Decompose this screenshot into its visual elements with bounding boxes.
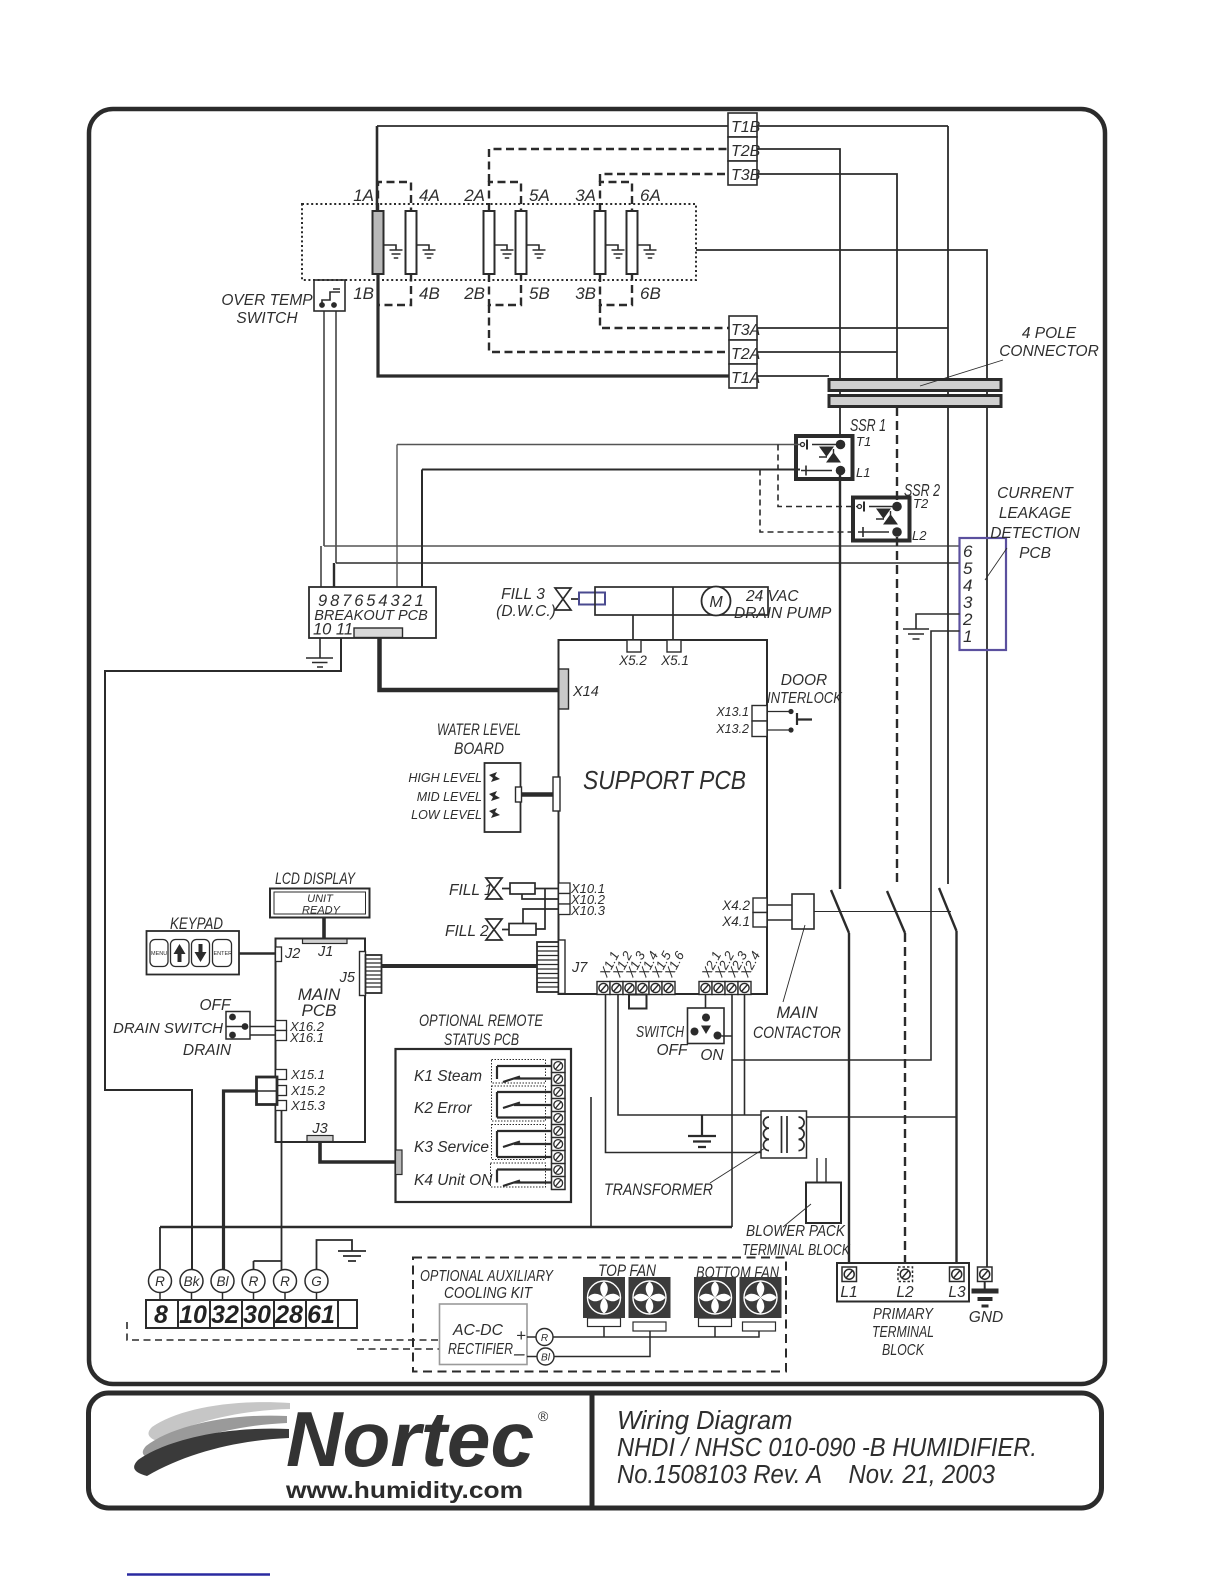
svg-text:28: 28: [274, 1301, 303, 1329]
wire T1B left drop to fuse 1A: [376, 126, 379, 211]
wire T2A right: [757, 351, 897, 353]
fuse 5A: [516, 211, 527, 274]
svg-text:24 VAC: 24 VAC: [745, 588, 799, 605]
wire fuse1B thick to T1A: [378, 274, 729, 376]
svg-text:LEAKAGE: LEAKAGE: [999, 505, 1072, 522]
wire to X5.2: [632, 615, 634, 640]
drain switch: [113, 997, 232, 1059]
svg-text:FILL 2: FILL 2: [445, 923, 489, 940]
status PCB: [396, 1049, 572, 1202]
ground at fuse 3A: [606, 245, 625, 258]
contact 1 blade: [831, 475, 849, 1267]
svg-text:3A: 3A: [575, 186, 596, 205]
primary terminal block: [837, 1263, 969, 1302]
K2 contact: [492, 1086, 546, 1121]
blower pack terminal block: [806, 1183, 841, 1224]
circle to cell stubs: [160, 1293, 317, 1301]
svg-text:X10.3: X10.3: [570, 903, 606, 918]
fill 3 valve: [555, 588, 579, 610]
svg-text:READY: READY: [302, 905, 341, 917]
svg-text:Bl: Bl: [216, 1274, 229, 1289]
svg-text:–: –: [513, 1344, 525, 1365]
svg-text:X15.2: X15.2: [290, 1083, 326, 1098]
svg-text:R: R: [155, 1274, 165, 1289]
X5.1 stub: [667, 640, 681, 652]
svg-text:X13.2: X13.2: [715, 722, 749, 736]
T1B label box: [728, 113, 757, 137]
svg-text:UNIT: UNIT: [307, 893, 334, 905]
X5.2 stub: [627, 640, 641, 652]
svg-text:30: 30: [243, 1301, 271, 1329]
svg-text:STATUS PCB: STATUS PCB: [444, 1031, 519, 1049]
svg-text:TERMINAL: TERMINAL: [872, 1324, 934, 1341]
wire X1.2 down to transformer: [618, 995, 761, 1116]
svg-text:61: 61: [307, 1301, 335, 1329]
svg-text:2B: 2B: [463, 284, 485, 303]
current leakage detection PCB: [960, 538, 1007, 650]
breakout pin11 wire big left loop: [105, 638, 341, 1270]
dotted fuse-block box: [302, 204, 696, 280]
svg-text:5B: 5B: [529, 284, 550, 303]
status PCB screw strip: [552, 1060, 566, 1190]
control wire to CLD pin5: [336, 562, 960, 564]
svg-text:L1: L1: [856, 465, 870, 480]
svg-text:2A: 2A: [463, 186, 485, 205]
svg-text:DETECTION: DETECTION: [990, 525, 1080, 542]
svg-text:J2: J2: [284, 946, 300, 962]
svg-text:GND: GND: [969, 1309, 1003, 1326]
K1 contact: [492, 1060, 546, 1084]
svg-text:RECTIFIER: RECTIFIER: [448, 1341, 513, 1358]
wire switch ON to X2.3 and down: [722, 995, 733, 1228]
dashed wire SSR2 vertical: [896, 407, 898, 502]
fan 1: [583, 1277, 625, 1318]
svg-text:TERMINAL BLOCK: TERMINAL BLOCK: [742, 1242, 851, 1259]
X1 terminal screws: [597, 982, 675, 995]
fuse 4A: [406, 211, 417, 274]
thick wire J3 to status PCB: [320, 1142, 396, 1163]
fuse 1A: [373, 211, 384, 274]
thick wire breakout to X14: [380, 638, 559, 691]
svg-text:SUPPORT PCB: SUPPORT PCB: [583, 765, 746, 795]
svg-text:PCB: PCB: [302, 1001, 337, 1020]
GND screw: [978, 1267, 993, 1282]
control wire to CLD pin6: [324, 545, 960, 547]
T3B label box: [728, 161, 757, 185]
svg-text:1: 1: [963, 627, 972, 646]
svg-text:R: R: [249, 1274, 259, 1289]
power switch: [688, 1008, 725, 1044]
svg-text:SWITCH: SWITCH: [236, 310, 298, 327]
X4 stubs: [753, 898, 767, 913]
svg-text:G: G: [311, 1274, 322, 1289]
wires transformer to blower block: [817, 1158, 826, 1183]
svg-text:32: 32: [211, 1301, 239, 1329]
svg-text:AC-DC: AC-DC: [452, 1322, 504, 1339]
svg-text:T2A: T2A: [731, 346, 760, 363]
svg-text:NHDI / NHSC 010-090 -B HUMIDIF: NHDI / NHSC 010-090 -B HUMIDIFIER.: [617, 1434, 1037, 1462]
svg-text:CURRENT: CURRENT: [997, 485, 1074, 502]
4 pole connector bar1: [829, 380, 1001, 391]
svg-text:10: 10: [179, 1301, 207, 1329]
svg-text:INTERLOCK: INTERLOCK: [767, 690, 843, 707]
drain pump motor: [702, 587, 731, 616]
svg-text:X15.3: X15.3: [290, 1098, 326, 1113]
breakout pin10 ground: [306, 638, 333, 667]
svg-text:+: +: [516, 1326, 526, 1345]
wire transformer to L3 line: [807, 1116, 957, 1118]
ground at fuse 6A: [638, 245, 657, 258]
J2 stub: [276, 947, 282, 962]
svg-text:K2 Error: K2 Error: [414, 1100, 473, 1117]
svg-text:K1 Steam: K1 Steam: [414, 1068, 482, 1085]
svg-text:TRANSFORMER: TRANSFORMER: [604, 1181, 713, 1199]
svg-text:T3B: T3B: [731, 167, 761, 184]
svg-text:CONNECTOR: CONNECTOR: [999, 343, 1099, 360]
main PCB: [276, 939, 366, 1143]
svg-text:SWITCH: SWITCH: [636, 1024, 685, 1041]
svg-text:1A: 1A: [353, 186, 374, 205]
svg-text:PRIMARY: PRIMARY: [873, 1306, 934, 1323]
leader to CLD pcb: [985, 548, 1007, 580]
svg-text:COOLING KIT: COOLING KIT: [444, 1285, 533, 1302]
ground at fuse 4A: [417, 245, 436, 258]
X15 stubs: [276, 1070, 287, 1080]
K4 contact: [491, 1163, 546, 1187]
svg-text:Wiring Diagram: Wiring Diagram: [617, 1407, 792, 1435]
dashed wire phase2 down to T2A: [489, 305, 729, 352]
T2A label box: [729, 340, 757, 364]
water board connector + thick wire: [516, 787, 522, 802]
svg-text:R: R: [541, 1333, 548, 1344]
thick bottom bus wire: [160, 1226, 732, 1229]
fuse 6A: [627, 211, 638, 274]
dashed parallel loop pair2: [489, 182, 521, 305]
svg-text:(D.W.C.): (D.W.C.): [496, 603, 556, 620]
svg-text:X4.1: X4.1: [721, 914, 750, 929]
svg-text:BLOCK: BLOCK: [882, 1342, 925, 1359]
transformer: [761, 1111, 807, 1158]
AC-DC rectifier: [440, 1304, 528, 1365]
X2.4 drop: [744, 995, 746, 1116]
breakout pin9 stub: [320, 546, 322, 587]
svg-text:LOW LEVEL: LOW LEVEL: [411, 808, 482, 822]
X15 bracket connector: [257, 1077, 278, 1105]
X1.3 jumper box: [629, 995, 647, 1009]
chassis ground below switch: [688, 1115, 716, 1147]
svg-text:T1: T1: [856, 434, 871, 449]
svg-text:X16.1: X16.1: [289, 1030, 324, 1045]
title text: [617, 1407, 1037, 1489]
svg-text:J3: J3: [311, 1121, 327, 1137]
dashed wire phase3 down to T3A: [600, 305, 729, 328]
Bl output circle: [537, 1348, 554, 1365]
Nortec logo swoosh mid: [143, 1416, 287, 1459]
dashed parallel loop pair3: [600, 182, 632, 305]
wire T1B top run: [377, 125, 948, 127]
CLD pin1 wire to switch circuit: [732, 631, 960, 1060]
dashed link terminal strip to rectifier: [127, 1322, 440, 1340]
svg-text:K3 Service: K3 Service: [414, 1139, 489, 1156]
svg-text:T1B: T1B: [731, 119, 761, 136]
main border frame: [89, 109, 1105, 1384]
K3 contact: [492, 1125, 546, 1160]
wire LCD to J1: [322, 918, 326, 939]
SSR1 body: [796, 436, 853, 479]
svg-text:6A: 6A: [640, 186, 661, 205]
svg-text:OVER TEMP: OVER TEMP: [221, 292, 313, 309]
svg-text:K4 Unit ON: K4 Unit ON: [414, 1172, 493, 1189]
dashed wire T3B left: [600, 174, 728, 182]
svg-text:SSR 1: SSR 1: [850, 415, 886, 435]
X2 terminal screws: [699, 982, 751, 995]
svg-text:L1: L1: [840, 1284, 857, 1301]
svg-text:MID LEVEL: MID LEVEL: [417, 790, 482, 804]
main contactor coil: [792, 894, 814, 929]
svg-text:LCD DISPLAY: LCD DISPLAY: [275, 870, 356, 888]
ground at fuse 1A: [384, 245, 403, 258]
dashed parallel loop pair1: [378, 182, 411, 305]
svg-text:X5.1: X5.1: [660, 653, 689, 668]
blue underline mark: [127, 1573, 270, 1575]
X14 stub: [559, 669, 569, 709]
svg-text:3B: 3B: [575, 284, 596, 303]
svg-text:PCB: PCB: [1019, 545, 1051, 562]
svg-text:R: R: [280, 1274, 290, 1289]
svg-text:T2B: T2B: [731, 143, 761, 160]
svg-text:6B: 6B: [640, 284, 661, 303]
fuse 3A: [595, 211, 606, 274]
fan wires: [553, 1327, 759, 1338]
T2B label box: [728, 137, 757, 161]
over temp switch: [314, 280, 345, 311]
dashed control taps to SSR2: [778, 445, 857, 507]
terminal circle wires: [159, 1227, 161, 1270]
thick wire X15 to Bl terminal: [224, 1091, 257, 1270]
svg-text:DRAIN PUMP: DRAIN PUMP: [734, 605, 832, 622]
svg-text:4A: 4A: [419, 186, 440, 205]
svg-text:CONTACTOR: CONTACTOR: [753, 1024, 841, 1042]
svg-text:DRAIN SWITCH: DRAIN SWITCH: [113, 1020, 223, 1037]
contact 2 blade: [887, 891, 905, 933]
svg-text:5A: 5A: [529, 186, 550, 205]
optional auxiliary cooling kit dashed box: [413, 1258, 786, 1372]
ground at fuse 5A: [527, 245, 546, 258]
svg-text:HIGH LEVEL: HIGH LEVEL: [408, 771, 482, 785]
svg-text:1B: 1B: [353, 284, 374, 303]
contact 3 blade: [939, 888, 957, 1267]
svg-text:T3A: T3A: [731, 322, 760, 339]
svg-text:M: M: [709, 594, 723, 611]
terminal number strip: [146, 1300, 357, 1328]
fan feet: [588, 1318, 621, 1327]
svg-text:L2: L2: [912, 528, 927, 543]
svg-text:OPTIONAL REMOTE: OPTIONAL REMOTE: [419, 1012, 544, 1030]
svg-text:X5.2: X5.2: [618, 653, 647, 668]
svg-text:OFF: OFF: [657, 1042, 690, 1059]
T3A label box: [729, 316, 757, 340]
Nortec logo swoosh light: [148, 1402, 290, 1441]
dashed wire T2B left: [489, 149, 728, 182]
wire keypad to J2: [239, 952, 276, 954]
breakout connector bar: [354, 628, 403, 638]
LCD display: [270, 889, 370, 918]
svg-text:4 POLE: 4 POLE: [1022, 325, 1077, 342]
4 pole connector bar2: [829, 396, 1001, 407]
svg-text:ON: ON: [700, 1047, 724, 1064]
svg-text:®: ®: [538, 1408, 549, 1424]
svg-text:10 11: 10 11: [313, 621, 353, 639]
breakout PCB: [309, 587, 436, 638]
breakout pin8 stub: [333, 563, 335, 587]
CLD pin2 ground wire: [903, 614, 960, 639]
svg-text:DOOR: DOOR: [781, 672, 828, 689]
svg-text:DRAIN: DRAIN: [183, 1042, 232, 1059]
wire X1.1 down to transformer: [606, 995, 762, 1153]
fuse 2A: [484, 211, 495, 274]
ground at fuse 2A: [495, 245, 514, 258]
wire right of status PCB down to bus: [590, 1097, 592, 1227]
thick wire J5 to J7: [382, 964, 538, 968]
svg-text:BLOWER PACK: BLOWER PACK: [746, 1223, 846, 1240]
svg-text:T2: T2: [913, 496, 929, 511]
SSR2 body: [853, 498, 910, 541]
svg-text:ENTER: ENTER: [214, 951, 233, 957]
svg-text:WATER LEVEL: WATER LEVEL: [437, 721, 521, 739]
wire T1A right to connector: [757, 375, 829, 377]
Nortec logo swoosh dark: [134, 1429, 289, 1476]
J7 connector: [537, 940, 565, 994]
svg-text:MENU: MENU: [151, 951, 167, 957]
svg-text:www.humidity.com: www.humidity.com: [285, 1477, 523, 1503]
wire X15.3 down to R terminals: [254, 1111, 282, 1270]
leader to connector: [920, 360, 1003, 386]
svg-text:MAIN: MAIN: [776, 1004, 817, 1022]
water level board: [485, 763, 521, 832]
svg-text:FILL 3: FILL 3: [501, 586, 545, 603]
fuse labels: [353, 186, 661, 303]
X10 stubs: [559, 883, 571, 894]
svg-text:J7: J7: [571, 960, 588, 976]
wire T2B right to SSR1: [757, 149, 840, 444]
svg-text:X15.1: X15.1: [290, 1067, 325, 1082]
title block frame: [89, 1393, 1102, 1508]
svg-text:No.1508103 Rev. A Nov. 21,: No.1508103 Rev. A Nov. 21, 2003: [617, 1461, 995, 1489]
svg-text:X14: X14: [572, 684, 599, 700]
svg-text:T1A: T1A: [731, 370, 760, 387]
wire X2.1 to switch: [705, 995, 707, 1014]
svg-text:L3: L3: [948, 1284, 966, 1301]
T1A label box: [729, 364, 757, 388]
neutral wire from fuse block: [696, 250, 987, 1267]
door interlock stubs: [752, 706, 767, 722]
over temp switch wires down: [324, 311, 336, 563]
svg-text:Nortec: Nortec: [286, 1395, 534, 1483]
R output circle: [536, 1329, 553, 1346]
svg-text:J1: J1: [317, 944, 333, 960]
title block divider: [590, 1393, 595, 1508]
support PCB: [559, 640, 768, 994]
wire T3B right down: [757, 174, 897, 379]
svg-text:4B: 4B: [419, 284, 440, 303]
svg-text:Bk: Bk: [184, 1274, 201, 1289]
drain pump assembly box: [595, 587, 768, 615]
terminal circles: [149, 1270, 329, 1293]
wires drain switch to X16: [250, 1027, 276, 1036]
svg-text:FILL 1: FILL 1: [449, 882, 493, 899]
SSR1 control wires from breakout: [397, 445, 800, 588]
svg-text:BOARD: BOARD: [454, 740, 504, 758]
J1 connector bar: [303, 939, 348, 944]
wire T1B vertical down to contact: [947, 126, 949, 884]
svg-text:X13.1: X13.1: [715, 705, 749, 719]
wire T3A right: [757, 327, 948, 329]
svg-text:8: 8: [154, 1301, 168, 1329]
svg-text:Bl: Bl: [541, 1353, 551, 1364]
svg-text:L2: L2: [896, 1284, 914, 1301]
svg-text:J5: J5: [339, 970, 356, 986]
svg-text:OPTIONAL AUXILIARY: OPTIONAL AUXILIARY: [420, 1268, 554, 1285]
svg-text:X4.2: X4.2: [721, 898, 750, 913]
fill 3 coil box (blue): [579, 593, 605, 605]
